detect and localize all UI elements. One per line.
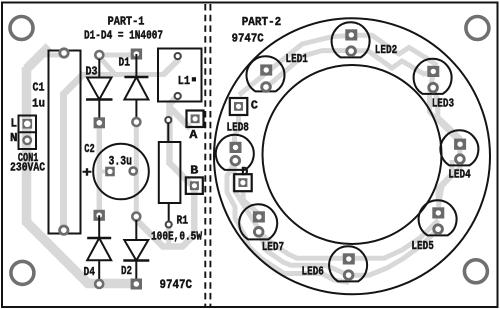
wire horizontal AC net y=74.5 [80, 72, 164, 77]
svg-text:PART-2: PART-2 [242, 15, 282, 29]
svg-text:D1-D4 = 1N4007: D1-D4 = 1N4007 [84, 29, 163, 43]
svg-text:1u: 1u [32, 97, 45, 111]
LED7 [239, 204, 277, 239]
wire LED4 round to LED5 round [438, 160, 452, 202]
svg-text:LED5: LED5 [411, 239, 433, 253]
node pad A [187, 111, 204, 128]
LED6 [329, 246, 367, 281]
diode D3 [86, 51, 113, 128]
svg-text:A: A [189, 128, 198, 142]
svg-text:L1: L1 [178, 74, 191, 88]
LED4 [440, 130, 478, 165]
hole bottom-left [11, 261, 34, 284]
wire LED8 round pad to LED7 round pad [234, 161, 258, 230]
svg-text:230VAC: 230VAC [10, 161, 45, 175]
wire LED7 round to LED6 round [259, 232, 349, 275]
wire D3 bottom to D4 top [97, 123, 103, 215]
wire branch to pad A [170, 107, 191, 129]
hole top-right [466, 17, 489, 40]
svg-text:C: C [251, 99, 258, 113]
separator dashed line right [209, 4, 211, 306]
wire C2 square pad stub [99, 170, 110, 174]
wire pad C to LED2 square pad [239, 36, 352, 96]
svg-text:9747C: 9747C [160, 277, 193, 292]
wire R1 bottom stub [166, 225, 171, 247]
svg-text:C1: C1 [33, 81, 45, 95]
svg-text:D4: D4 [84, 265, 96, 279]
wire to L1 top pad [163, 56, 178, 75]
svg-text:LED7: LED7 [262, 240, 284, 254]
wire D3 pad stub [100, 58, 115, 75]
wire mains loop: C1 top pad to D4/D2 bottom pads [42, 53, 63, 58]
svg-text:3.3u: 3.3u [109, 153, 133, 168]
svg-text:D3: D3 [86, 65, 98, 79]
svg-text:100E,0.5W: 100E,0.5W [151, 230, 203, 244]
svg-text:PART-1: PART-1 [108, 15, 145, 29]
wire pad D to LED7 square pad [243, 186, 259, 217]
svg-text:B: B [190, 164, 198, 178]
node pad C [230, 98, 248, 115]
wire outer rail LED8 to LED6 [227, 163, 349, 283]
hole bottom-right [464, 260, 487, 283]
node pad D [234, 174, 252, 191]
inductor L1 [158, 49, 202, 102]
svg-text:D1: D1 [119, 56, 131, 70]
capacitor C1 [49, 49, 81, 235]
diode D4 [87, 210, 111, 288]
wire L1 bottom pad to R1 top / A / B [170, 96, 193, 186]
wire LED2 square pad to LED3 upper [357, 35, 437, 65]
svg-text:LED3: LED3 [432, 97, 454, 111]
ring inner circle [263, 65, 442, 244]
svg-text:N: N [10, 131, 18, 145]
svg-text:+: + [82, 166, 92, 182]
svg-text:C2: C2 [84, 142, 95, 156]
svg-text:LED4: LED4 [448, 168, 470, 182]
resistor R1 [159, 117, 181, 228]
wire LED1 round pad to LED2 round pad [266, 51, 352, 88]
separator dashed line left [204, 4, 206, 306]
ring outer circle [214, 18, 490, 294]
hole top-left [10, 17, 33, 40]
diode D1 [124, 49, 148, 127]
wire D1 bottom to D2 top [134, 122, 139, 216]
wire LED3 square pad to LED4 square pad [430, 72, 460, 142]
svg-text:LED2: LED2 [375, 43, 397, 57]
connector CON1 [19, 116, 37, 150]
svg-text:R1: R1 [177, 214, 189, 228]
wire LED7 round to LED6 square [259, 232, 349, 258]
svg-text:D2: D2 [121, 264, 132, 278]
wire LED5 square to LED6 square [349, 220, 439, 258]
diode D2 [123, 213, 149, 290]
wire LED3 round pad to LED4 round pad [432, 88, 460, 158]
node pad B [186, 177, 203, 194]
svg-text:L: L [11, 116, 18, 130]
wire D3 top to D1 top [99, 53, 137, 58]
capacitor C2 [93, 144, 149, 200]
LED8 [216, 135, 254, 170]
wire LED5 round to LED6 round [349, 229, 439, 275]
LED2 [332, 22, 370, 57]
svg-text:9747C: 9747C [232, 32, 264, 46]
wire LED2 round pad to LED3 square pad [352, 51, 434, 74]
LED5 [419, 200, 457, 235]
wire LED4 to LED5 [438, 150, 460, 207]
svg-text:LED6: LED6 [302, 265, 324, 279]
LED3 [414, 59, 452, 94]
wire C2 round pad stub [133, 169, 136, 173]
wire pad B to D2 top pad [136, 188, 194, 247]
svg-text:LED8: LED8 [227, 121, 249, 135]
wire C1 bottom to bridge AC node [64, 74, 85, 231]
svg-text:LED1: LED1 [286, 52, 308, 66]
wire pad C to LED8 square pad [235, 110, 239, 146]
LED1 [246, 56, 284, 91]
